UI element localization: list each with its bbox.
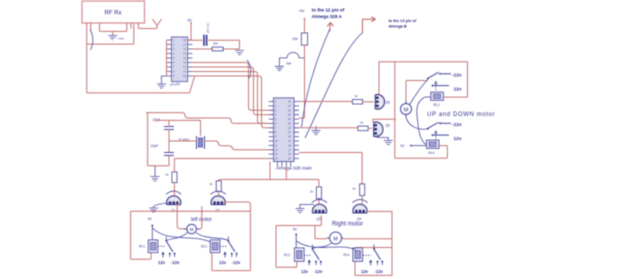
svg-text:Q1: Q1 [171, 209, 175, 213]
svg-text:RL3: RL3 [284, 253, 290, 257]
svg-text:5V: 5V [148, 217, 153, 221]
svg-text:12v: 12v [158, 260, 166, 265]
svg-text:1k: 1k [310, 190, 314, 194]
svg-text:C1 1uF: C1 1uF [206, 24, 210, 34]
svg-text:-12v: -12v [375, 269, 384, 274]
svg-text:12v: 12v [454, 136, 462, 142]
svg-text:-12v: -12v [171, 260, 180, 265]
svg-text:10k: 10k [292, 37, 298, 41]
svg-text:to the 12 pin of: to the 12 pin of [312, 7, 345, 12]
svg-text:12v: 12v [219, 260, 227, 265]
svg-text:Q3: Q3 [317, 217, 321, 221]
svg-text:RL3: RL3 [434, 103, 440, 107]
svg-text:bat: bat [287, 62, 292, 66]
svg-text:5V: 5V [188, 19, 193, 23]
svg-text:1k: 1k [360, 121, 364, 125]
svg-text:Atmega B: Atmega B [389, 24, 407, 29]
svg-text:RL2: RL2 [201, 245, 207, 249]
svg-text:22pF: 22pF [151, 144, 159, 148]
svg-text:Right motor: Right motor [332, 221, 363, 227]
svg-text:UP and DOWN motor: UP and DOWN motor [427, 112, 495, 118]
svg-text:12v: 12v [301, 269, 309, 274]
svg-text:+Vss: +Vss [118, 37, 125, 41]
svg-text:1k: 1k [210, 182, 214, 186]
svg-text:5V: 5V [401, 144, 406, 148]
svg-text:1k: 1k [353, 187, 357, 191]
svg-text:RL4: RL4 [344, 253, 350, 257]
svg-text:Q6: Q6 [386, 124, 390, 128]
svg-text:RL1: RL1 [139, 245, 145, 249]
svg-text:1k: 1k [355, 94, 359, 98]
svg-text:-12v: -12v [314, 269, 323, 274]
svg-text:M: M [190, 227, 194, 232]
svg-text:M: M [334, 236, 338, 242]
svg-text:HT12D: HT12D [170, 82, 181, 87]
svg-text:-12v: -12v [452, 72, 462, 78]
svg-text:-12v: -12v [452, 122, 462, 128]
svg-text:5V: 5V [293, 228, 298, 232]
svg-text:Q2: Q2 [216, 209, 220, 213]
svg-text:Atmega 328 A: Atmega 328 A [312, 14, 343, 19]
svg-text:RL4: RL4 [429, 151, 435, 155]
svg-text:Atmega 328 main: Atmega 328 main [276, 165, 312, 170]
svg-text:M: M [404, 107, 409, 113]
svg-text:Q5: Q5 [386, 101, 390, 105]
svg-text:+5v: +5v [299, 9, 305, 13]
svg-text:1k: 1k [166, 173, 170, 177]
svg-text:12v: 12v [361, 269, 369, 274]
svg-text:33K: 33K [213, 42, 218, 46]
svg-text:12v: 12v [454, 86, 462, 92]
svg-text:to the 13 pin of: to the 13 pin of [389, 18, 417, 23]
svg-text:-12v: -12v [232, 260, 241, 265]
svg-text:RF Rx: RF Rx [105, 11, 122, 17]
